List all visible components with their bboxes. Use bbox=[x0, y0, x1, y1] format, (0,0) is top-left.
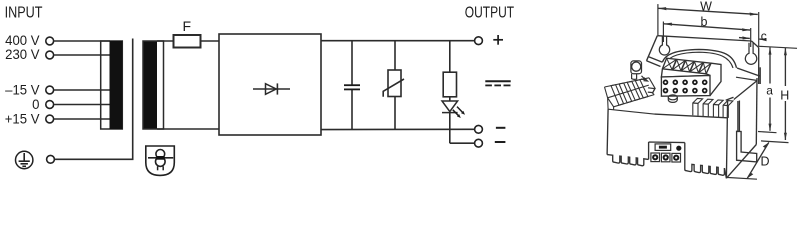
output terminal minus 2 bbox=[475, 139, 483, 147]
label 0 bbox=[32, 97, 40, 112]
wire +15V bbox=[54, 118, 110, 120]
wire secondary top to fuse bbox=[157, 40, 174, 42]
transformer T1 secondary outline bbox=[143, 41, 164, 129]
left rib 2 bbox=[619, 83, 632, 103]
wire PE bbox=[55, 39, 133, 160]
capacitor C1 plates bbox=[344, 84, 360, 86]
left slab with fins bbox=[605, 78, 656, 114]
connector screws bbox=[651, 153, 681, 162]
left rib 1 bbox=[611, 85, 624, 106]
svg-text:b: b bbox=[701, 15, 708, 29]
bracket verticals bbox=[737, 101, 739, 131]
label 400 V bbox=[5, 33, 39, 48]
dim a bbox=[758, 47, 777, 132]
body left edge bbox=[607, 109, 608, 154]
svg-text:OUTPUT: OUTPUT bbox=[465, 3, 515, 21]
resistor R1 branch bbox=[449, 41, 451, 72]
wire second minus bbox=[450, 142, 475, 144]
dim b witness bbox=[662, 22, 664, 43]
wire 0 bbox=[54, 104, 110, 106]
base edge bbox=[608, 109, 654, 114]
transformer T1 secondary winding (filled) bbox=[143, 41, 157, 129]
left rib 4 bbox=[635, 80, 648, 98]
top face back edge bbox=[608, 85, 649, 98]
body right edge bbox=[726, 77, 757, 178]
wire fuse to rectifier bbox=[201, 40, 220, 42]
wire 230V bbox=[54, 54, 110, 56]
label INPUT bbox=[5, 4, 43, 22]
varistor RV1 body bbox=[388, 70, 401, 97]
terminal block front face bbox=[661, 63, 721, 96]
notch at front-left corner bbox=[648, 88, 655, 93]
fuse F bbox=[174, 35, 201, 48]
wire -15V bbox=[54, 89, 110, 91]
right fin 4 bbox=[723, 101, 733, 118]
bottom connector recess bbox=[649, 142, 685, 164]
varistor RV1 branch bbox=[394, 41, 396, 70]
safety transformer symbol (shield) bbox=[146, 146, 175, 175]
top bus wire bbox=[321, 40, 474, 42]
input terminal -15V bbox=[46, 86, 54, 94]
small screw under block bbox=[668, 95, 677, 103]
svg-text:W: W bbox=[700, 0, 712, 14]
right fin group bbox=[693, 98, 733, 118]
side face top edge bbox=[734, 81, 757, 100]
top face front edge bbox=[614, 95, 655, 107]
bottom edge with feet, left group bbox=[607, 155, 726, 179]
input terminal PE bbox=[47, 155, 55, 163]
dim b line bbox=[664, 24, 750, 30]
bottom bus wire bbox=[321, 128, 474, 130]
svg-text:F: F bbox=[183, 18, 192, 34]
transformer T1 primary outline bbox=[101, 41, 123, 129]
top plate outline bbox=[647, 36, 761, 84]
wire secondary bottom to rectifier bbox=[157, 128, 219, 130]
dim H bbox=[759, 46, 797, 142]
minus sign 1 bbox=[496, 127, 506, 129]
bottom edge right of connector with feet bbox=[685, 164, 725, 176]
varistor RV1 diagonal bbox=[383, 79, 404, 97]
input terminal +15V bbox=[46, 115, 54, 123]
LED arrows bbox=[453, 107, 465, 118]
side face bottom edge bbox=[726, 145, 756, 179]
label OUTPUT bbox=[465, 3, 515, 21]
terminal block rim line bbox=[662, 69, 706, 74]
transformer T1 primary winding (filled) bbox=[110, 41, 123, 129]
svg-text:D: D bbox=[761, 155, 770, 169]
svg-text:–15 V: –15 V bbox=[5, 82, 39, 97]
capacitor C1 branch bbox=[351, 41, 353, 85]
small clip right of knob bbox=[644, 78, 648, 82]
terminal block cell dividers bbox=[662, 58, 711, 74]
plate lower right edge bbox=[736, 77, 757, 80]
right fin 2 bbox=[703, 99, 713, 116]
label -15 V bbox=[5, 82, 39, 97]
output terminal minus 1 bbox=[475, 125, 483, 133]
side bracket L bbox=[737, 131, 757, 162]
terminal block top face bbox=[661, 58, 711, 77]
svg-text:230 V: 230 V bbox=[5, 47, 39, 62]
wire resistor to LED bbox=[449, 97, 451, 101]
minus sign 2 bbox=[495, 141, 506, 143]
PE earth symbol bbox=[16, 151, 33, 168]
slab left end bbox=[605, 87, 614, 110]
wire 400V bbox=[54, 40, 110, 42]
dome (winding bell) bbox=[663, 49, 737, 67]
bottom connector label bbox=[655, 144, 681, 151]
body top edge bbox=[654, 114, 727, 118]
input terminal 0 bbox=[46, 101, 54, 109]
input terminal 400V bbox=[46, 37, 54, 45]
right mounting ear bbox=[745, 43, 756, 65]
left mounting ear bbox=[659, 36, 669, 55]
label +15 V bbox=[5, 111, 40, 126]
side face back edge bbox=[755, 78, 758, 145]
left rib 3 bbox=[627, 81, 640, 100]
svg-text:0: 0 bbox=[32, 97, 40, 112]
svg-text:c: c bbox=[761, 29, 767, 43]
dim D bbox=[726, 142, 769, 179]
dim W line bbox=[658, 8, 758, 14]
dim c arrows bbox=[739, 37, 750, 40]
wire LED to bottom bus bbox=[449, 113, 451, 144]
slab right end bbox=[649, 78, 655, 95]
svg-text:INPUT: INPUT bbox=[5, 4, 43, 22]
plus sign bbox=[493, 35, 503, 45]
input terminal 230V bbox=[46, 51, 54, 59]
label 230 V bbox=[5, 47, 39, 62]
back wall crest bbox=[605, 78, 650, 87]
right fin 3 bbox=[713, 100, 723, 117]
rectifier diode bbox=[253, 83, 290, 94]
svg-text:a: a bbox=[766, 84, 773, 98]
output terminal + bbox=[475, 37, 483, 45]
left end knob bbox=[631, 61, 645, 80]
DC symbol bbox=[485, 81, 510, 85]
LED D1 bbox=[442, 101, 458, 113]
dim W witness lines bbox=[657, 4, 659, 35]
resistor R1 body bbox=[443, 72, 456, 97]
rectifier box bbox=[219, 34, 321, 135]
svg-text:+15 V: +15 V bbox=[5, 111, 40, 126]
right fin 1 bbox=[693, 98, 703, 115]
bottom right corner bbox=[724, 168, 726, 178]
terminal screws (2 rows x 5) bbox=[663, 80, 708, 94]
svg-text:H: H bbox=[780, 89, 789, 103]
